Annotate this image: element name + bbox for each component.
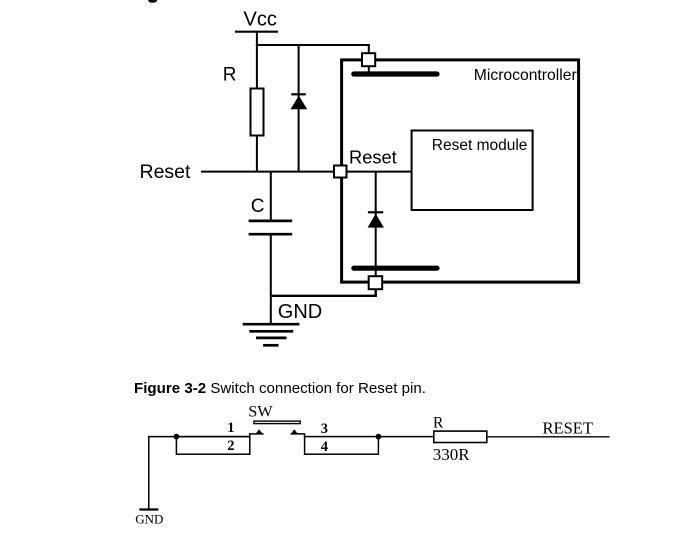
resistor R body xyxy=(251,89,264,136)
switch SW actuator bar xyxy=(254,421,300,424)
svg-text:Vcc: Vcc xyxy=(244,8,277,30)
wire switch contact left xyxy=(250,434,264,438)
wire loop pins 1-2 xyxy=(176,437,249,455)
wire to resistor xyxy=(378,436,434,438)
wire capacitor branch lower to ground xyxy=(270,234,272,324)
pin pad bottom (GND pin) xyxy=(369,276,383,289)
svg-text:C: C xyxy=(251,196,265,217)
wire Vcc stub to branch xyxy=(256,32,258,46)
svg-text:SW: SW xyxy=(248,402,273,421)
svg-text:1: 1 xyxy=(227,420,234,436)
junction dot A xyxy=(174,434,180,440)
capacitor C top plate xyxy=(249,220,293,223)
wire capacitor branch upper xyxy=(270,172,272,221)
svg-text:R: R xyxy=(433,415,444,432)
ground symbol line 2 xyxy=(249,330,293,333)
pin pad top (Vcc pin) xyxy=(362,53,375,66)
ground symbol line 4 xyxy=(263,344,278,347)
ground symbol line 1 xyxy=(243,323,300,326)
wire Vcc horizontal branch xyxy=(256,44,370,46)
switch contact arrow left xyxy=(256,429,263,434)
svg-text:GND: GND xyxy=(278,301,322,323)
svg-text:330R: 330R xyxy=(433,445,471,464)
wire from microcontroller GND pad xyxy=(270,289,376,296)
svg-text:RESET: RESET xyxy=(543,419,593,438)
diode D2 cathode bar xyxy=(368,211,383,213)
resistor R 330R body xyxy=(434,431,487,442)
svg-text:2: 2 xyxy=(227,438,234,454)
svg-text:Figure 3-2 Switch connection f: Figure 3-2 Switch connection for Reset p… xyxy=(134,380,426,397)
svg-text:R: R xyxy=(223,65,237,86)
svg-text:GND: GND xyxy=(135,512,163,527)
wire loop pins 3-4 xyxy=(305,437,379,455)
ground bar (bottom figure) xyxy=(139,508,158,510)
svg-text:4: 4 xyxy=(321,439,328,455)
diode D2 triangle xyxy=(368,214,384,228)
wire main left segment xyxy=(149,436,250,438)
wire resistor branch vertical xyxy=(256,44,258,172)
ground symbol line 3 xyxy=(256,337,287,340)
diode D1 triangle xyxy=(291,96,308,110)
svg-text:3: 3 xyxy=(321,421,328,437)
wire diode branch vertical xyxy=(298,44,300,172)
capacitor C bottom plate xyxy=(249,233,293,236)
wire switch contact right xyxy=(291,434,305,438)
reset module box xyxy=(412,131,533,211)
cropped text remnant top edge xyxy=(148,0,157,3)
svg-text:Microcontroller: Microcontroller xyxy=(474,67,577,84)
GND bus bar inside microcontroller xyxy=(354,266,437,271)
pin pad left (Reset pin) xyxy=(334,166,347,178)
svg-text:Reset: Reset xyxy=(349,146,397,167)
wire RESET output xyxy=(487,436,610,438)
diode D1 cathode bar xyxy=(291,93,306,95)
switch contact arrow right xyxy=(291,429,298,434)
svg-text:Reset module: Reset module xyxy=(432,137,528,154)
Vcc bus bar inside microcontroller xyxy=(354,71,437,76)
wire Reset horizontal xyxy=(201,171,411,173)
wire drop to ground xyxy=(148,436,150,510)
wire internal diode branch xyxy=(375,172,377,277)
Vcc power rail bar xyxy=(235,31,278,33)
wire Vcc pad stub xyxy=(368,44,370,73)
microcontroller U1 box xyxy=(342,60,579,282)
svg-text:Reset: Reset xyxy=(140,161,192,183)
junction dot B xyxy=(376,434,382,440)
